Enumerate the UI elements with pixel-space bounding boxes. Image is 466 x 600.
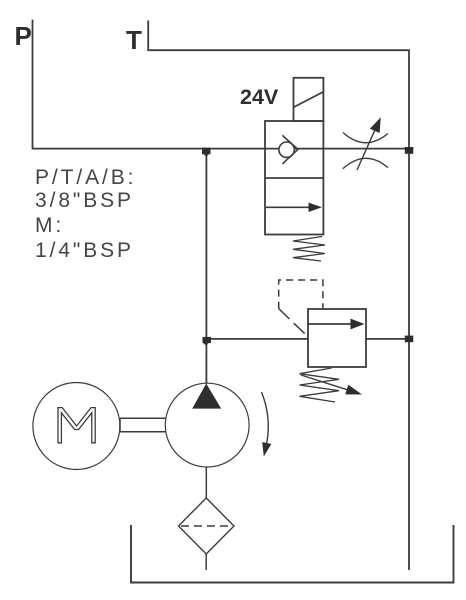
- svg-text:T: T: [126, 25, 142, 55]
- svg-text:1/4"BSP: 1/4"BSP: [35, 239, 134, 262]
- svg-text:P: P: [15, 21, 32, 51]
- svg-text:24V: 24V: [240, 85, 279, 109]
- svg-text:3/8"BSP: 3/8"BSP: [35, 189, 134, 212]
- svg-text:P/T/A/B:: P/T/A/B:: [35, 166, 136, 189]
- svg-text:M:: M:: [35, 214, 64, 237]
